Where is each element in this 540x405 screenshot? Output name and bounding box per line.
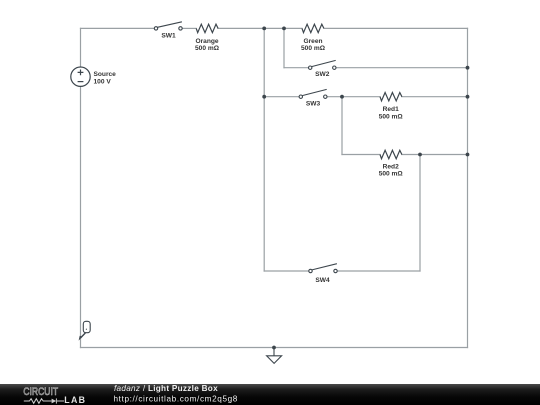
wire left vertical above source: [80, 28, 82, 67]
wire SW2 row right: [336, 67, 468, 69]
resistor Green: [302, 24, 324, 32]
junction node Red2 x420: [418, 153, 422, 157]
wire vertical x264: [263, 28, 265, 271]
svg-text:http://circuitlab.com/cm2q5g8: http://circuitlab.com/cm2q5g8: [114, 395, 238, 404]
svg-text:SW1: SW1: [161, 33, 176, 40]
svg-text:500 mΩ: 500 mΩ: [195, 45, 220, 52]
wire right vertical: [467, 28, 469, 347]
svg-text:500 mΩ: 500 mΩ: [301, 45, 326, 52]
wire vertical x342: [341, 97, 343, 155]
resistor Orange R: [196, 24, 218, 32]
svg-text:CIRCUIT: CIRCUIT: [23, 386, 58, 398]
junction node SW3 right x342: [340, 95, 344, 99]
svg-text:Orange: Orange: [195, 38, 218, 45]
switch SW2: [309, 60, 336, 69]
wire top after Green: [324, 27, 468, 29]
junction node top x264: [262, 27, 266, 31]
ground: [267, 348, 282, 364]
wire left vertical below source: [80, 86, 82, 347]
annotation pointer: [79, 321, 91, 340]
switch SW1: [154, 22, 182, 30]
svg-text:Source: Source: [94, 71, 117, 78]
wire Red1 right: [402, 96, 468, 98]
svg-text:100 V: 100 V: [94, 79, 112, 86]
wire Red2 right: [402, 154, 468, 156]
wire SW2 row left: [284, 67, 309, 69]
svg-text:SW4: SW4: [315, 277, 330, 284]
wire Red2 row left: [342, 154, 380, 156]
resistor Red2: [380, 150, 402, 158]
logo zigzag and diode: [24, 398, 64, 403]
resistor Red1: [380, 92, 402, 100]
junction node right Red2: [466, 153, 470, 157]
wire top between Orange and Green: [218, 27, 302, 29]
wire vertical x420: [419, 155, 421, 272]
svg-text:SW3: SW3: [306, 100, 321, 107]
wire bottom horizontal: [81, 347, 468, 349]
svg-text:500 mΩ: 500 mΩ: [379, 171, 404, 178]
junction node ground tap: [272, 346, 276, 350]
svg-text:LAB: LAB: [64, 395, 86, 405]
wire SW4 row right: [337, 270, 420, 272]
switch SW3: [299, 89, 327, 98]
svg-text:500 mΩ: 500 mΩ: [379, 113, 404, 120]
wire SW3 row left: [264, 96, 299, 98]
wire SW4 row left: [264, 270, 309, 272]
svg-text:SW2: SW2: [315, 71, 330, 78]
svg-text:Green: Green: [303, 38, 322, 45]
wire vertical x284: [283, 28, 285, 67]
svg-text:fadanz / Light Puzzle Box: fadanz / Light Puzzle Box: [114, 384, 218, 393]
wire top after SW1: [182, 27, 196, 29]
junction node right SW2: [466, 66, 470, 70]
junction node SW3 row x264: [262, 95, 266, 99]
wire SW3 to Red1: [327, 96, 380, 98]
svg-text:Red1: Red1: [383, 106, 399, 113]
voltage source V1: [71, 67, 90, 86]
wire top left horizontal: [81, 27, 155, 29]
switch SW4: [309, 264, 337, 273]
junction node right Red1: [466, 95, 470, 99]
junction node top x284: [282, 27, 286, 31]
svg-text:Red2: Red2: [383, 163, 399, 170]
